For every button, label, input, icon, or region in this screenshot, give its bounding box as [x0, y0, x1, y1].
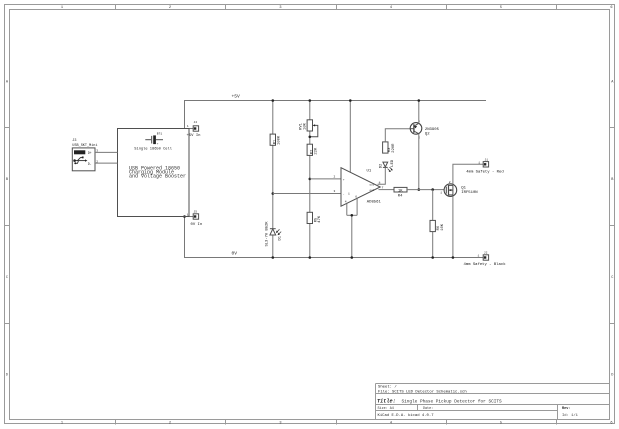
svg-text:5: 5	[500, 422, 502, 426]
wire R3 top to Q2 base	[385, 129, 410, 142]
svg-text:D+: D+	[88, 151, 92, 155]
svg-text:C: C	[6, 276, 8, 280]
junction R1 top	[272, 99, 275, 102]
resistor R1	[270, 134, 281, 145]
svg-text:4mm Safety - Black: 4mm Safety - Black	[464, 262, 507, 267]
svg-text:4mm Safety - Red: 4mm Safety - Red	[466, 170, 503, 175]
svg-text:2: 2	[334, 176, 336, 179]
resistor R3	[383, 142, 396, 153]
potentiometer RV1	[300, 120, 318, 137]
wire R4 to gate	[407, 189, 444, 191]
svg-text:and Voltage Booster: and Voltage Booster	[129, 174, 186, 180]
junction RV1 bottom	[309, 256, 312, 259]
svg-text:-: -	[343, 193, 345, 196]
svg-text:File: SCITS LED Detector Schem: File: SCITS LED Detector Schematic.sch	[378, 389, 467, 394]
wire J3 D+ to module	[95, 151, 118, 153]
wire op-amp ground pins	[347, 198, 357, 257]
svg-text:6: 6	[610, 6, 612, 10]
svg-text:10K: 10K	[441, 223, 445, 231]
svg-text:D1: D1	[279, 235, 283, 240]
svg-text:BT1: BT1	[157, 133, 163, 136]
svg-text:Q1: Q1	[461, 187, 466, 191]
junction Q1 source rail	[452, 256, 455, 259]
connector J1	[466, 158, 503, 174]
svg-text:AD8561: AD8561	[367, 200, 382, 204]
svg-text:5: 5	[500, 6, 502, 10]
battery BT1	[145, 133, 163, 146]
svg-text:6: 6	[610, 422, 612, 426]
svg-text:J5: J5	[194, 211, 198, 214]
svg-text:+5V: +5V	[232, 94, 241, 100]
svg-text:Id: 1/1: Id: 1/1	[562, 413, 579, 418]
svg-text:4: 4	[390, 6, 392, 10]
svg-text:0V: 0V	[232, 251, 238, 257]
svg-text:1: 1	[61, 6, 63, 10]
svg-text:+: +	[157, 143, 159, 146]
border column labels top	[61, 6, 613, 10]
svg-text:2: 2	[169, 6, 171, 10]
svg-text:D: D	[6, 373, 8, 377]
junction RV1 top	[309, 99, 312, 102]
junction op-amp ground rail	[351, 256, 354, 259]
svg-text:Single 18650 Cell: Single 18650 Cell	[134, 146, 172, 151]
svg-text:Rev:: Rev:	[562, 407, 570, 411]
svg-text:7: 7	[382, 186, 384, 189]
svg-text:D2: D2	[380, 163, 384, 168]
connector J3 USB socket	[72, 139, 98, 171]
svg-text:Sheet: /: Sheet: /	[378, 385, 397, 390]
wire J3 D- to module	[95, 162, 118, 164]
connector J5	[187, 211, 202, 227]
svg-text:1: 1	[61, 422, 63, 426]
junction R1 to pin3	[272, 192, 275, 195]
junction Q2 collector	[418, 188, 421, 191]
border row labels right	[611, 80, 614, 377]
svg-text:SL3-70 BG2K: SL3-70 BG2K	[265, 221, 269, 247]
svg-text:+5V In: +5V In	[187, 134, 201, 138]
svg-text:Title:: Title:	[377, 399, 396, 405]
svg-text:47K: 47K	[318, 215, 322, 223]
svg-text:1: 1	[348, 193, 350, 196]
border column ticks top	[116, 5, 557, 10]
svg-text:Date:: Date:	[423, 407, 433, 411]
svg-text:Q2: Q2	[425, 132, 430, 136]
wire 0V riser from module J5	[185, 217, 194, 258]
junction R1 bottom	[272, 256, 275, 259]
wire +5V rail	[184, 100, 486, 102]
border row ticks left	[5, 128, 10, 324]
junction R6 top	[431, 188, 434, 191]
svg-text:Single Phase Pickup Detector f: Single Phase Pickup Detector for SCITS	[402, 399, 502, 404]
wire pin3	[273, 193, 341, 195]
border row ticks right	[610, 128, 615, 324]
svg-text:1: 1	[478, 161, 480, 164]
svg-text:10K: 10K	[303, 122, 307, 130]
svg-text:1: 1	[187, 125, 189, 128]
svg-text:3: 3	[279, 422, 281, 426]
svg-text:0V In: 0V In	[191, 223, 203, 227]
svg-text:3: 3	[334, 190, 336, 193]
wire Q2 emitter to rail	[418, 101, 420, 124]
wire pin2	[310, 178, 341, 180]
wire Q1 source to rail	[452, 196, 454, 257]
diode D1 photodiode	[265, 221, 282, 247]
svg-text:out: out	[370, 184, 375, 187]
wire op-amp output pin7	[379, 189, 395, 191]
title block frame	[376, 384, 610, 420]
svg-text:3: 3	[279, 6, 281, 10]
svg-text:out: out	[370, 189, 375, 192]
svg-text:J3: J3	[72, 139, 76, 143]
wire +5V drop to module J4	[185, 101, 194, 129]
transistor Q1 IRF510N	[440, 181, 478, 196]
svg-text:Size: A4: Size: A4	[378, 406, 394, 411]
svg-text:4: 4	[390, 422, 392, 426]
wire RV1 column	[309, 101, 311, 258]
svg-text:2: 2	[449, 181, 451, 184]
svg-text:22K: 22K	[314, 147, 318, 155]
svg-text:IRF510N: IRF510N	[461, 191, 478, 195]
wire op-amp V+ drop	[349, 101, 351, 173]
svg-text:6: 6	[355, 196, 357, 199]
junction R6 bottom	[431, 256, 434, 259]
junction op-amp ground	[351, 214, 354, 217]
wire Q1 drain to J1	[453, 164, 483, 184]
LED D2	[380, 159, 396, 172]
connector J2	[464, 252, 507, 267]
svg-text:KiCad E.D.A. kicad 4.0.7: KiCad E.D.A. kicad 4.0.7	[378, 413, 435, 418]
op-amp U1	[334, 168, 384, 207]
svg-text:1K: 1K	[398, 189, 403, 193]
junction RV1 wiper return	[309, 136, 312, 139]
wire 0V rail	[184, 257, 483, 259]
wire R1 column	[272, 101, 274, 258]
svg-text:J2: J2	[484, 252, 488, 255]
border row labels left	[6, 80, 9, 377]
wire op-amp pin8 to LED	[378, 168, 386, 184]
module text	[129, 165, 186, 179]
wire Q2 collector	[418, 134, 420, 190]
resistor R5	[307, 212, 322, 223]
svg-text:2N3905: 2N3905	[425, 128, 440, 132]
svg-text:2: 2	[169, 422, 171, 426]
connector J4	[187, 121, 201, 138]
resistor R2	[307, 144, 318, 155]
module box USB charger	[118, 129, 190, 217]
junction module 0V corner	[183, 215, 186, 218]
svg-text:1: 1	[440, 192, 442, 195]
svg-text:1: 1	[187, 214, 189, 217]
border column ticks bottom	[116, 420, 557, 425]
svg-text:R4: R4	[398, 195, 403, 199]
svg-text:D: D	[611, 373, 613, 377]
svg-text:220R: 220R	[392, 143, 396, 153]
resistor R6	[430, 220, 445, 231]
svg-text:LED: LED	[391, 159, 395, 167]
junction Q2 emitter rail	[418, 99, 421, 102]
svg-text:J1: J1	[485, 158, 489, 161]
svg-text:J4: J4	[194, 121, 198, 124]
svg-text:4: 4	[345, 200, 347, 203]
svg-text:U1: U1	[367, 170, 372, 174]
junction R2 to pin2	[309, 178, 312, 181]
wire R6 column	[432, 190, 434, 258]
resistor R4	[394, 187, 407, 198]
border column labels bottom	[61, 422, 613, 426]
svg-text:C: C	[611, 276, 613, 280]
svg-text:+: +	[343, 178, 345, 181]
svg-text:100K: 100K	[277, 135, 281, 145]
transistor Q2 2N3905	[410, 120, 439, 140]
svg-text:D-: D-	[88, 162, 92, 166]
junction op-amp V+	[349, 99, 352, 102]
svg-text:1: 1	[478, 254, 480, 257]
